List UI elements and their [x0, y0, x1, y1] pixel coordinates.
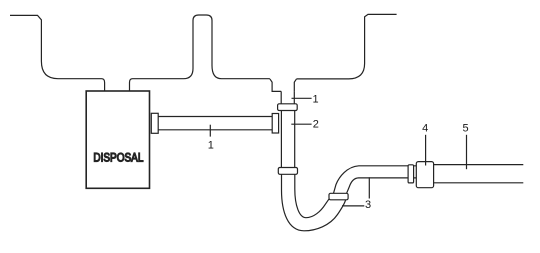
leader for label 1 (discharge tube): [209, 125, 211, 137]
leader for label 4: [425, 135, 427, 166]
svg-text:2: 2: [313, 119, 319, 131]
disposal unit box: [86, 91, 149, 188]
slip nut tailpiece-to-tee: [278, 104, 298, 111]
tailpiece (1): [281, 91, 294, 103]
slip nut trap outlet (3): [329, 193, 348, 200]
trap elbow to arm, top edge: [334, 166, 417, 194]
leader for label 5: [466, 135, 468, 169]
slip nut at wall coupling: [408, 165, 414, 183]
svg-text:5: 5: [462, 122, 468, 134]
discharge tube (1) between disposal and tee: [158, 117, 272, 130]
waste tee vertical pipe (2): [281, 111, 294, 168]
disposal outlet flange: [151, 113, 158, 133]
wall coupling body (4): [416, 162, 433, 188]
P-trap U-bend inner wall: [295, 174, 331, 217]
coupling nut at tee inlet: [272, 114, 278, 134]
leader for label 2: [291, 123, 311, 125]
leader for label 1 (tailpiece): [292, 97, 312, 99]
svg-text:DISPOSAL: DISPOSAL: [93, 151, 143, 164]
svg-text:3: 3: [365, 199, 371, 211]
leader for label 3 vertical (trap arm): [368, 177, 370, 198]
svg-text:1: 1: [208, 139, 214, 151]
slip nut tee-to-trap: [278, 168, 297, 175]
trap elbow to arm, bottom edge: [347, 178, 417, 193]
wall drain pipe (5): [434, 165, 524, 183]
P-trap U-bend outer wall: [282, 174, 346, 231]
sink double-bowl cross-section profile: [10, 14, 397, 91]
sink drain funnel into tailpiece: [270, 79, 297, 92]
svg-text:4: 4: [422, 122, 428, 134]
leader for label 3 horizontal (trap): [342, 205, 364, 207]
svg-text:1: 1: [313, 93, 319, 105]
